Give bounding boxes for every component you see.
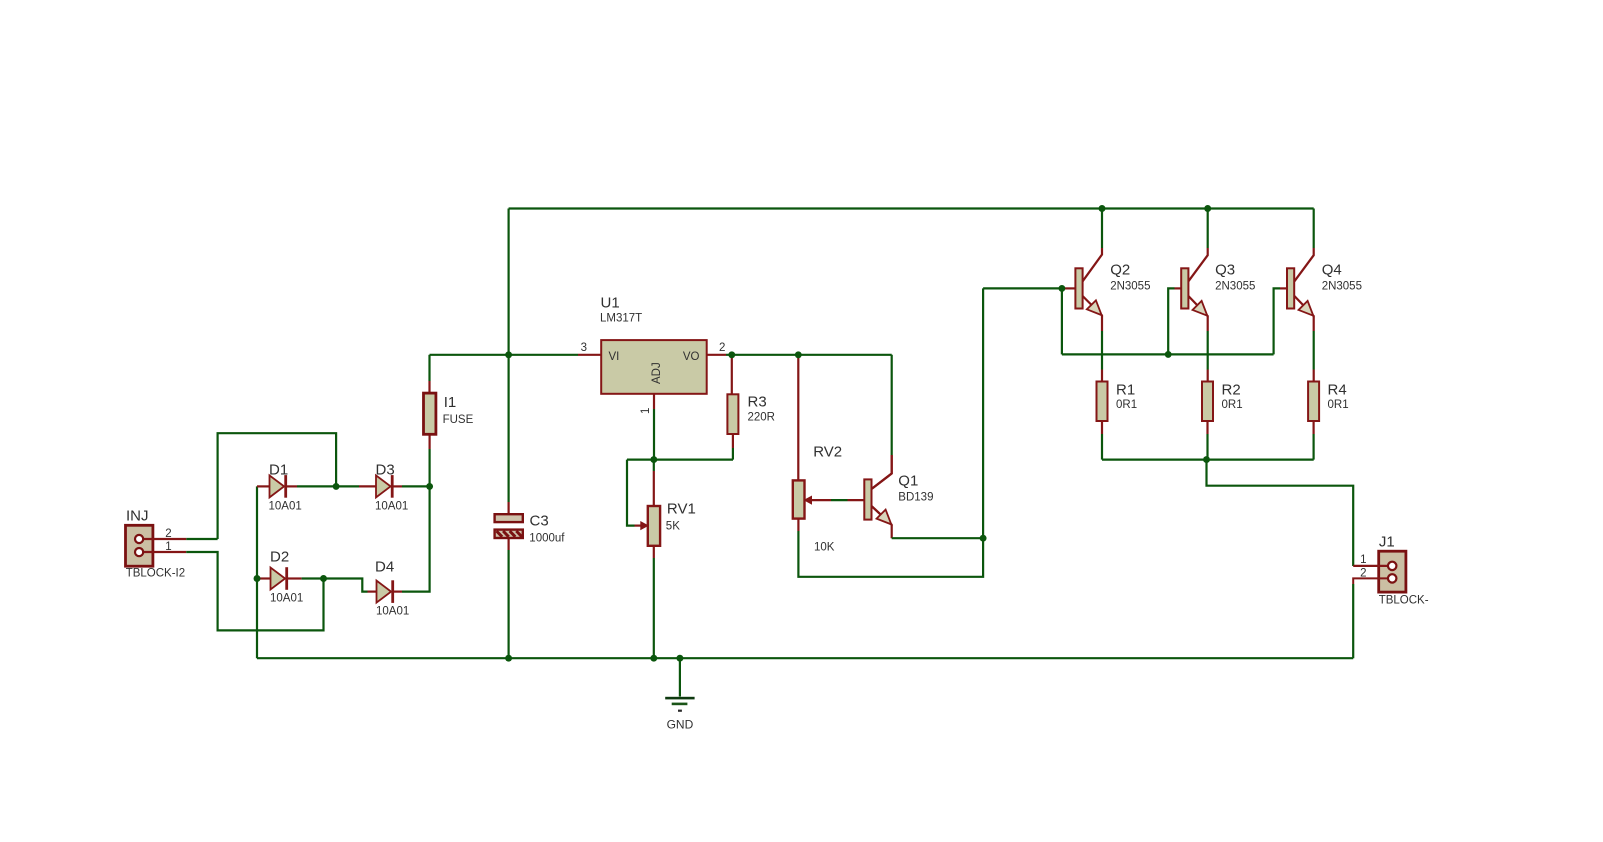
wire base feed horizontal: [983, 287, 1062, 289]
transistor Q4 (2N3055): [1294, 248, 1313, 281]
pin D3 cathode stub: [393, 485, 402, 487]
wire VI net horizontal: [430, 354, 579, 356]
wire base feed vertical: [982, 288, 984, 538]
wire R2 bottom vertical: [1206, 434, 1208, 460]
svg-text:I1: I1: [444, 394, 457, 411]
ground symbol GND: [665, 697, 694, 700]
wire C3 top vertical: [508, 355, 510, 502]
capacitor C3 (1000uf): [495, 514, 523, 522]
pin R2 top stub: [1207, 370, 1209, 382]
wire Q2 emitter vertical: [1101, 331, 1103, 370]
terminal block INJ pins and labels: [135, 535, 143, 543]
svg-text:2N3055: 2N3055: [1322, 281, 1362, 293]
svg-text:R2: R2: [1222, 382, 1241, 399]
wire D2 output jog to D4: [302, 579, 368, 592]
wire Q4 collector vertical: [1313, 209, 1315, 249]
wire RV1 bottom vertical: [653, 558, 655, 658]
pin INJ pin2 stub: [143, 538, 186, 540]
node Q3 collector junction: [1204, 205, 1211, 212]
pin RV2 wiper / Q1 base lead: [811, 499, 832, 501]
node D3-fuse junction: [426, 483, 433, 490]
wire C3 bottom vertical: [508, 550, 510, 658]
svg-text:2: 2: [165, 528, 171, 540]
svg-text:TBLOCK-I2: TBLOCK-I2: [126, 568, 185, 580]
wire base rail drop: [1061, 288, 1063, 354]
wire top supply rail: [509, 207, 1314, 209]
node D1-D3 junction: [333, 483, 340, 490]
resistor R3 (220R): [727, 394, 738, 434]
svg-text:1000uf: 1000uf: [529, 533, 565, 545]
wire D3 to fuse node: [402, 485, 430, 487]
potentiometer RV1 (5K): [648, 506, 660, 546]
wire Q4 base riser: [1274, 288, 1280, 354]
node D2-D4 junction: [320, 575, 327, 582]
wire ADJ vertical: [653, 409, 655, 460]
pin R3 bottom stub: [732, 434, 734, 448]
svg-text:D1: D1: [269, 461, 288, 478]
pin Q3 base stub: [1175, 287, 1182, 289]
pin RV1 wiper lead: [635, 524, 642, 526]
wire bridge top loop: [218, 433, 337, 539]
wire bottom ground rail: [257, 657, 1353, 659]
svg-text:GND: GND: [667, 718, 694, 732]
potentiometer RV2 (10K): [793, 480, 805, 518]
wire R4 bottom vertical: [1312, 434, 1314, 460]
pin Q4 base stub: [1280, 287, 1287, 289]
wire emitter rail: [1102, 459, 1314, 461]
pin C3 bottom stub: [508, 537, 510, 550]
svg-text:TBLOCK-: TBLOCK-: [1379, 595, 1429, 607]
pin U1 VO (pin 2) stub: [707, 354, 726, 356]
svg-text:U1: U1: [601, 295, 620, 312]
svg-text:ADJ: ADJ: [651, 362, 663, 384]
node GND junction: [676, 655, 683, 662]
wire J1 pin2 drop: [1352, 584, 1354, 658]
pin I1 bottom stub: [429, 434, 431, 449]
svg-text:D2: D2: [270, 549, 289, 566]
svg-text:220R: 220R: [748, 412, 776, 424]
node VO/RV2 junction: [795, 351, 802, 358]
wire Q3 collector vertical: [1207, 209, 1209, 249]
transistor Q2 (2N3055): [1083, 248, 1102, 281]
svg-text:10A01: 10A01: [375, 501, 408, 513]
svg-text:D4: D4: [375, 559, 394, 576]
wire base rail horizontal: [1062, 353, 1274, 355]
pin R3 top lead: [731, 355, 733, 395]
fuse I1: [424, 393, 436, 434]
svg-text:10A01: 10A01: [376, 605, 409, 617]
svg-text:Q3: Q3: [1215, 262, 1235, 279]
wire D1 to D3 link: [297, 485, 336, 487]
svg-text:1: 1: [1360, 554, 1366, 566]
node Q3 base junction: [1165, 351, 1172, 358]
node VO/R3 junction: [728, 351, 735, 358]
resistor R2 (0R1): [1202, 382, 1213, 422]
node Q2 collector junction: [1099, 205, 1106, 212]
svg-text:R3: R3: [748, 394, 767, 411]
wire RV1 wiper drop: [627, 460, 635, 526]
pin D4 anode stub: [368, 590, 377, 592]
wire GND stem: [679, 658, 681, 696]
wire ADJ horizontal: [627, 459, 733, 461]
svg-text:1: 1: [640, 408, 652, 414]
transistor Q3 (2N3055): [1188, 248, 1207, 281]
wire Q1 collector vertical: [891, 355, 893, 455]
pin R4 bottom stub: [1312, 421, 1314, 434]
svg-text:10K: 10K: [814, 542, 835, 554]
pin Q1 emitter lead: [872, 506, 892, 538]
node Q1 emitter junction: [980, 535, 987, 542]
node Q2 base junction: [1058, 285, 1065, 292]
diode D2: [271, 568, 286, 590]
wire Q3 base riser: [1168, 288, 1174, 354]
transistor Q1 (BD139): [872, 455, 892, 489]
node C3 ground junction: [505, 655, 512, 662]
pin D4 cathode stub: [393, 590, 402, 592]
svg-text:0R1: 0R1: [1222, 399, 1243, 411]
diode D1: [270, 475, 285, 497]
svg-text:5K: 5K: [666, 521, 680, 533]
node D2 anode junction: [254, 575, 261, 582]
pin D1 anode stub: [257, 485, 270, 487]
node VI/C3 junction: [505, 351, 512, 358]
pin R1 bottom stub: [1101, 421, 1103, 434]
wire D3 anode link: [336, 485, 359, 487]
diode D3: [376, 475, 391, 497]
wire RV1 top vertical: [653, 460, 655, 471]
pin D3 anode stub: [359, 485, 376, 487]
wire Q3 emitter vertical: [1207, 331, 1209, 370]
svg-text:C3: C3: [530, 513, 549, 530]
svg-text:FUSE: FUSE: [443, 414, 474, 426]
node emitter rail junction: [1203, 456, 1210, 463]
wire left vertical (top rail to VI node): [508, 209, 510, 355]
svg-text:RV1: RV1: [667, 501, 696, 518]
svg-text:10A01: 10A01: [269, 501, 302, 513]
pin D2 cathode stub: [288, 577, 302, 579]
wire Q2 collector vertical: [1101, 209, 1103, 249]
wire INJ pin1 loop: [186, 552, 323, 630]
pin R2 bottom stub: [1206, 421, 1208, 434]
pin INJ pin1 stub: [143, 551, 186, 553]
pin RV1 top stub: [653, 471, 655, 506]
svg-text:2N3055: 2N3055: [1110, 281, 1150, 293]
pin R4 top stub: [1313, 370, 1315, 382]
wire output drop to J1: [1207, 460, 1354, 566]
wire R1 bottom vertical: [1101, 434, 1103, 460]
wire Q1 emitter to node: [892, 537, 983, 539]
svg-text:INJ: INJ: [126, 508, 149, 525]
diode D4: [377, 581, 392, 603]
svg-text:0R1: 0R1: [1328, 399, 1349, 411]
pin D1 cathode stub: [287, 485, 297, 487]
resistor R1 (0R1): [1097, 382, 1108, 422]
svg-text:J1: J1: [1379, 534, 1395, 551]
resistor R4 (0R1): [1308, 382, 1319, 422]
pin Q2 base stub: [1062, 287, 1076, 289]
svg-text:2N3055: 2N3055: [1215, 281, 1255, 293]
svg-text:0R1: 0R1: [1116, 399, 1137, 411]
svg-text:2: 2: [1360, 567, 1366, 579]
pin U1 VI (pin 3) stub: [578, 354, 601, 356]
wire fuse bottom vertical: [429, 449, 431, 486]
terminal block J1 pins and labels: [1388, 562, 1396, 570]
wire fuse top vertical: [428, 355, 430, 381]
svg-text:1: 1: [165, 541, 171, 553]
svg-text:2: 2: [719, 342, 725, 354]
regulator U1 (LM317T): [601, 340, 707, 394]
wire VO net horizontal: [726, 354, 892, 356]
svg-text:D3: D3: [376, 461, 395, 478]
pin U1 ADJ (pin 1) stub: [653, 394, 655, 409]
svg-text:VI: VI: [609, 351, 620, 363]
svg-text:R1: R1: [1116, 382, 1135, 399]
svg-text:Q4: Q4: [1322, 262, 1342, 279]
pin D2 anode stub: [257, 577, 271, 579]
svg-text:VO: VO: [683, 351, 700, 363]
pin J1 pin1 stub: [1353, 565, 1388, 567]
wire RV2 bottom loop: [798, 531, 983, 577]
pin RV2 top lead: [797, 355, 799, 481]
pin J1 pin2 stub: [1353, 578, 1388, 584]
node ADJ junction: [650, 456, 657, 463]
node RV1 ground junction: [650, 655, 657, 662]
svg-text:3: 3: [581, 342, 587, 354]
svg-text:Q2: Q2: [1110, 262, 1130, 279]
pin C3 top stub: [508, 502, 510, 514]
pin Q1 collector lead: [872, 455, 892, 489]
svg-text:BD139: BD139: [898, 492, 933, 504]
pin R1 top stub: [1101, 370, 1103, 382]
wire Q4 emitter vertical: [1313, 331, 1315, 370]
pin RV2 bottom stub: [797, 519, 799, 531]
wire node down to D4 cathode: [402, 486, 430, 591]
svg-text:Q1: Q1: [898, 473, 918, 490]
svg-text:R4: R4: [1328, 382, 1347, 399]
pin I1 top stub: [428, 381, 430, 394]
wire R3 bottom vertical: [732, 448, 734, 460]
svg-text:10A01: 10A01: [270, 593, 303, 605]
svg-text:RV2: RV2: [813, 444, 842, 461]
pin RV1 bottom stub: [653, 546, 655, 558]
terminal block INJ body (TBLOCK-I2): [126, 525, 153, 566]
terminal block J1 body (TBLOCK-): [1379, 551, 1406, 592]
wire INJ pin2 link: [186, 538, 217, 540]
svg-text:LM317T: LM317T: [600, 313, 642, 325]
wire bridge left vertical: [256, 486, 258, 658]
